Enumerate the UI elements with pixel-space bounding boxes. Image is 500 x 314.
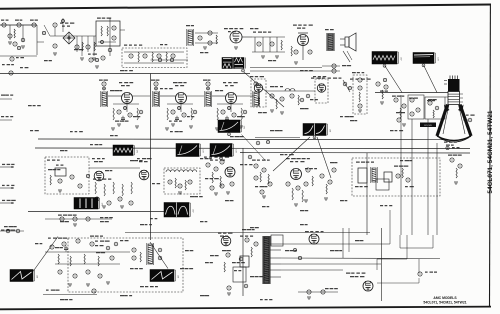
fuse and line filter	[240, 236, 258, 268]
CRT return wiring nest	[377, 235, 437, 283]
brightness network	[376, 78, 388, 104]
wire bus y152	[240, 152, 470, 155]
video peaking network	[266, 86, 315, 114]
tuner interconnect wires	[37, 18, 188, 62]
CRT base socket (black)	[444, 76, 460, 92]
heater wires	[293, 228, 349, 260]
tube V201 sound detector	[224, 28, 252, 49]
oscillogram photo W2	[413, 53, 438, 67]
sync separator network	[86, 168, 140, 208]
wire bus y232	[125, 232, 370, 234]
page top border	[0, 5, 491, 9]
svg-text:FOCUS: FOCUS	[424, 125, 432, 127]
bottom caption	[423, 296, 466, 304]
wire vertical x243	[242, 148, 244, 296]
waveform pointer W2	[424, 66, 437, 93]
sound IF decoupling parts	[88, 54, 105, 69]
svg-text:54CL071, 54CM21, 54TW21: 54CL071, 54CM21, 54TW21	[487, 110, 494, 193]
contrast control assembly (dashed)	[352, 72, 367, 114]
4.5MC trap assembly (dashed)	[45, 157, 89, 194]
waveform pointer W1	[385, 66, 402, 93]
bottom left feed wire	[43, 289, 97, 295]
oscillogram photo W8 (sync bars)	[74, 198, 102, 210]
horizontal phase detector	[252, 160, 272, 199]
left margin signal arrows	[0, 164, 16, 204]
page right border	[489, 5, 492, 308]
interlock input row	[0, 226, 24, 233]
wire main bus y73	[0, 73, 250, 75]
HV anode stub	[463, 115, 475, 122]
antenna input network	[0, 20, 38, 76]
tube V8 video amplifier (dashed)	[313, 76, 328, 103]
IF transformer T5	[203, 80, 212, 108]
speaker leads	[343, 51, 352, 62]
vertical oscillator network	[45, 236, 130, 287]
wire B+ bus y148	[35, 147, 470, 150]
oscillogram photo W7	[210, 144, 236, 160]
wire vertical x381	[381, 228, 383, 301]
video coupling parts	[343, 80, 352, 92]
damper stage network	[320, 168, 336, 201]
focus label box	[420, 123, 436, 128]
oscillogram photo W11 (sawtooth)	[150, 270, 178, 282]
IF transformer T4	[151, 80, 160, 108]
power transformer T301	[263, 235, 283, 284]
centering control box	[408, 95, 445, 119]
high voltage filter	[448, 155, 462, 185]
wire AGC bus y139	[38, 138, 446, 141]
audio output transformer T202	[325, 29, 334, 51]
tube V202 audio output	[291, 25, 313, 65]
speaker SP1	[340, 33, 356, 51]
left margin labels	[0, 95, 15, 231]
IF transformer T6	[253, 82, 260, 107]
right margin model text	[487, 110, 494, 193]
wire vertical x150	[150, 74, 152, 241]
response curve photo cluster	[222, 58, 246, 72]
IF stage 1 cathode network	[111, 104, 143, 131]
FM trap network (dashed)	[122, 45, 187, 68]
tube V5 video IF amplifier	[212, 82, 254, 104]
oscillogram photo W5	[113, 145, 137, 156]
power supply caption	[242, 229, 255, 230]
horizontal oscillator V11	[204, 157, 235, 196]
svg-text:AMC MODELS: AMC MODELS	[433, 296, 457, 300]
CRT funnel bell	[437, 105, 471, 143]
tube V15 rectifier	[346, 273, 373, 292]
oscillogram photo W4 (double)	[303, 124, 330, 139]
vertical output stage (dashed)	[68, 238, 183, 292]
waveform pointers W4	[273, 137, 331, 178]
video detector V7 (dashed shield)	[250, 76, 266, 107]
waveform pointer W10	[33, 237, 58, 272]
CRT lead verticals	[401, 95, 437, 235]
oscillogram photo W6	[176, 144, 203, 157]
oscillogram photo W10 (sawtooth)	[10, 270, 37, 282]
filter capacitor bank	[298, 288, 338, 299]
B+ feed lines	[250, 64, 351, 73]
miscellaneous value labels	[20, 28, 414, 300]
page bottom border	[0, 307, 491, 310]
tube V3 video IF amplifier	[108, 82, 150, 104]
CRT type label	[444, 142, 460, 150]
CRT bias divider	[392, 96, 406, 127]
IF stage 2 cathode network	[165, 104, 197, 131]
IF stage 3 cathode network	[215, 104, 247, 131]
tube V9 sync separator	[92, 158, 105, 181]
svg-text:54CL071, 54CM21, 54TW21: 54CL071, 54CM21, 54TW21	[423, 300, 466, 304]
tube V4 video IF amplifier	[160, 82, 204, 104]
waveform pointer W11	[150, 242, 168, 269]
wire bus y211	[28, 211, 176, 213]
tube V13 vertical output	[218, 233, 233, 246]
section caption text	[311, 78, 371, 80]
noise inverter row	[45, 215, 112, 227]
power distribution wires	[281, 210, 440, 270]
wire vertical x367	[366, 153, 368, 235]
horizontal output V12	[286, 158, 313, 206]
horizontal output transformer (dashed)	[352, 158, 440, 196]
waveform pointer W3	[242, 135, 266, 161]
sound discriminator transformer T201	[186, 25, 218, 49]
oscillogram photo W9 (sine)	[164, 203, 193, 218]
audio de-emphasis network	[252, 32, 285, 59]
IF transformer T3	[99, 80, 108, 108]
height-linearity controls	[222, 250, 248, 295]
tube V10 sync amplifier	[137, 158, 152, 180]
response curve pointer	[244, 72, 284, 107]
wire CRT video line	[375, 92, 448, 94]
tube V14 damper	[305, 231, 324, 244]
oscillogram photo W1	[372, 52, 401, 68]
horizontal AFC network (dashed)	[164, 168, 200, 194]
oscillogram photo W3	[218, 120, 244, 136]
ratio detector load network	[50, 36, 96, 60]
burst takeoff parts	[248, 138, 300, 159]
CRT neck electrodes	[428, 92, 463, 105]
quadrature coil can T1	[96, 18, 120, 47]
ratio detector label	[53, 23, 74, 37]
ratio detector bridge D1	[63, 32, 75, 44]
